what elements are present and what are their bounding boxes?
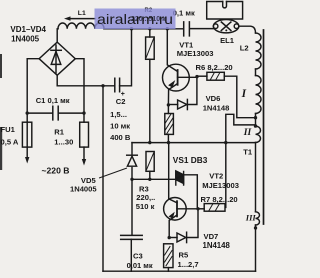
diode VD6 (168, 77, 197, 110)
transformer T1 core (263, 30, 265, 224)
svg-text:1N4005: 1N4005 (11, 34, 40, 43)
diac VS1 (176, 171, 198, 209)
node mid rail / R7 riser (224, 141, 227, 144)
svg-text:510 к: 510 к (136, 202, 155, 211)
node C1 right (82, 111, 85, 114)
wire top rail (104, 28, 183, 30)
node trigger / VD5 (130, 178, 133, 181)
svg-text:R7 8,2...20: R7 8,2...20 (201, 195, 238, 204)
scan edge artifacts (0, 54, 2, 170)
wire bridge left corner to FU1 (27, 59, 39, 122)
wire bridge bottom corner to C2 row (57, 75, 114, 86)
capacitor C1 (53, 106, 58, 120)
wire winding II to III (255, 143, 257, 212)
lamp EL1 bulb (213, 20, 239, 33)
wire L2 to winding I (255, 69, 257, 76)
node minus bus / C2 (101, 84, 104, 87)
node winding III bottom (254, 226, 257, 229)
node trigger / R3 (148, 178, 151, 181)
capacitor C2 (115, 78, 120, 92)
svg-text:VD7: VD7 (204, 232, 219, 241)
wire mid rail (132, 142, 256, 144)
svg-text:VD6: VD6 (206, 94, 221, 103)
svg-text:III: III (245, 213, 257, 223)
svg-text:+: + (121, 91, 125, 98)
transistor VT1 (163, 29, 198, 105)
transformer T1 winding II (256, 126, 261, 142)
wire minus bus (102, 86, 104, 271)
wire base VT1 to R6 (197, 75, 207, 77)
node VT1 base (195, 75, 198, 78)
svg-text:FU1: FU1 (1, 125, 16, 134)
svg-text:0,5 A: 0,5 A (1, 138, 19, 147)
svg-text:L1: L1 (78, 10, 86, 17)
svg-text:VS1 DB3: VS1 DB3 (173, 155, 208, 165)
svg-text:II: II (243, 128, 252, 138)
svg-text:MJE13003: MJE13003 (202, 181, 239, 190)
wire R5 bottom lead (167, 268, 169, 272)
wire R4 bottom lead (167, 134, 169, 142)
svg-text:1N4148: 1N4148 (203, 241, 231, 250)
resistor R2 (146, 37, 155, 59)
svg-text:VD1–VD4: VD1–VD4 (10, 25, 46, 34)
svg-text:C3: C3 (133, 252, 143, 261)
svg-text:T1: T1 (243, 148, 253, 157)
wire bridge top stub (56, 29, 59, 43)
svg-text:airalarm.ru: airalarm.ru (97, 11, 173, 27)
svg-text:1,5...: 1,5... (110, 110, 127, 119)
transformer T1 winding III (256, 212, 260, 225)
capacitor C4 (184, 22, 190, 36)
svg-text:C2: C2 (116, 97, 126, 106)
wire lamp right to L2 (239, 26, 256, 33)
transformer T1 winding I (256, 76, 262, 114)
fuse FU1 (22, 122, 31, 147)
inductor L2 (256, 33, 262, 69)
capacitor C3 (121, 179, 143, 271)
node top rail / VT1 collector (166, 27, 169, 30)
svg-text:1...30: 1...30 (54, 138, 73, 147)
wire trigger row (132, 178, 175, 180)
wire winding III to bottom rail (255, 225, 257, 271)
node top rail / C2 (130, 27, 133, 30)
svg-text:L2: L2 (240, 44, 249, 53)
inductor L1 (58, 23, 104, 29)
resistor R4 (165, 114, 174, 135)
svg-text:0,01 мк: 0,01 мк (127, 261, 153, 270)
svg-text:I: I (241, 88, 247, 100)
svg-text:C1 0,1 мк: C1 0,1 мк (36, 96, 70, 105)
svg-text:1...2,7: 1...2,7 (178, 260, 199, 269)
svg-text:1N4005: 1N4005 (70, 185, 97, 194)
mains arrow right (83, 147, 85, 159)
resistor R1 (80, 122, 89, 147)
diode inside bridge (51, 45, 61, 73)
transistor VT2 (164, 143, 198, 238)
wire top rail right of C4 (190, 28, 214, 30)
svg-text:0,1 мк: 0,1 мк (173, 9, 195, 18)
wire R3 bottom lead (149, 171, 151, 179)
svg-text:VT2: VT2 (209, 172, 223, 181)
svg-text:R6 8,2...20: R6 8,2...20 (196, 63, 233, 72)
resistor R7 (204, 204, 225, 212)
node winding II tap (254, 124, 257, 127)
mains arrow left (26, 147, 28, 157)
wire winding I to II (255, 114, 257, 127)
node VD7 anode / emitter (168, 236, 171, 239)
wire R4 top lead (167, 105, 169, 114)
lamp dot (225, 29, 227, 31)
node winding I tap (254, 116, 257, 119)
diode VD7 (169, 209, 198, 243)
wire R7 right up to winding II tap (226, 114, 256, 207)
node VT2 base (196, 207, 199, 210)
resistor R5 (164, 244, 173, 268)
wire C1 row (27, 112, 84, 114)
node mid rail / VT2 collector (167, 141, 170, 144)
node C1 left (26, 111, 29, 114)
wire base VT2 to R7 (198, 208, 204, 210)
svg-text:EL1: EL1 (220, 36, 235, 45)
node top rail / R2 (148, 27, 151, 30)
wire R2 top lead (149, 29, 151, 37)
VD5 label pointer (100, 168, 127, 178)
L1 direction arrow (68, 18, 95, 20)
watermark band (95, 9, 176, 30)
wire C2 right to top rail (120, 29, 132, 86)
resistor R3 (146, 152, 154, 172)
node mid rail / R3 (148, 141, 151, 144)
bridge rectifier VD1-VD4 diamond (39, 42, 75, 75)
svg-text:400 В: 400 В (110, 133, 131, 142)
svg-text:R5: R5 (179, 250, 189, 259)
wire R2 bottom lead to mid rail (149, 59, 151, 142)
svg-text:R1: R1 (54, 127, 64, 136)
node VD6 anode / emitter (167, 103, 170, 106)
diode VD5 (127, 143, 138, 180)
svg-text:MJE13003: MJE13003 (177, 49, 214, 58)
svg-text:10 мк: 10 мк (110, 122, 130, 131)
svg-text:220,..: 220,.. (136, 193, 155, 202)
wire bottom rail (103, 270, 256, 272)
wire bridge right corner down to R1 (75, 59, 84, 122)
wire R6 right to winding I tap (224, 76, 255, 118)
svg-text:~220 В: ~220 В (42, 165, 70, 175)
lamp EL1 tube (207, 2, 243, 20)
resistor R6 (207, 72, 224, 80)
svg-text:1N4148: 1N4148 (203, 104, 230, 113)
